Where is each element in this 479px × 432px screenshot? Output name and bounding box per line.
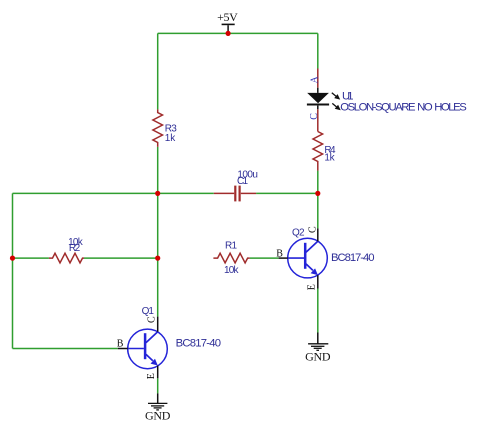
wire R1 right to Q2 base bbox=[250, 257, 279, 259]
wire R2 right to junction bbox=[84, 257, 158, 259]
svg-text:A: A bbox=[309, 76, 320, 84]
resistor R3 bbox=[153, 109, 177, 146]
svg-text:R2: R2 bbox=[69, 243, 81, 254]
ground GND (Q1) bbox=[145, 393, 171, 422]
resistor R1 bbox=[213, 240, 249, 276]
wire mid rail right segment bbox=[256, 192, 318, 194]
svg-text:GND: GND bbox=[305, 349, 331, 363]
svg-text:Q2: Q2 bbox=[292, 228, 305, 239]
svg-text:Q1: Q1 bbox=[142, 306, 155, 317]
svg-text:10k: 10k bbox=[224, 265, 240, 276]
junction dot left rail bbox=[10, 256, 15, 261]
junction dot R-row bbox=[155, 256, 160, 261]
wire mid junction down to Q2 collector bbox=[317, 193, 319, 228]
capacitor C1 bbox=[214, 169, 258, 201]
svg-text:BC817-40: BC817-40 bbox=[331, 252, 375, 264]
svg-text:C: C bbox=[309, 113, 320, 120]
svg-text:C: C bbox=[146, 316, 157, 323]
LED U1 bbox=[307, 69, 467, 132]
wire x=158 below R3 to mid rail bbox=[157, 147, 159, 194]
wire top rail bbox=[158, 32, 318, 34]
svg-text:1k: 1k bbox=[165, 133, 177, 144]
Q1 pins bbox=[157, 317, 159, 332]
svg-text:C1: C1 bbox=[237, 176, 248, 187]
svg-text:R1: R1 bbox=[225, 240, 237, 251]
svg-text:B: B bbox=[117, 339, 124, 350]
resistor R2 bbox=[49, 237, 84, 263]
junction dot mid-left bbox=[155, 191, 160, 196]
svg-text:BC817-40: BC817-40 bbox=[176, 337, 222, 349]
svg-text:C: C bbox=[308, 226, 319, 233]
junction dot +5V bbox=[226, 31, 231, 36]
resistor R4 bbox=[313, 132, 336, 171]
supply +5V symbol bbox=[217, 10, 238, 33]
wire right column x=318 top bbox=[317, 33, 319, 68]
wire bottom row to Q1 base bbox=[13, 348, 118, 350]
svg-text:B: B bbox=[276, 249, 283, 260]
svg-text:OSLON-SQUARE NO HOLES: OSLON-SQUARE NO HOLES bbox=[340, 102, 467, 114]
svg-text:+5V: +5V bbox=[217, 10, 238, 24]
wire x=158 mid rail to R-row bbox=[157, 193, 159, 258]
svg-text:GND: GND bbox=[145, 409, 171, 423]
wire x=158 R-row down to Q1 collector bbox=[157, 258, 159, 317]
wire left column x=158 upper bbox=[157, 33, 159, 109]
transistor Q2 bbox=[276, 226, 374, 290]
transistor Q1 bbox=[117, 306, 221, 379]
wire mid rail left segment bbox=[13, 192, 214, 194]
svg-text:E: E bbox=[307, 284, 318, 290]
LED arrow 1 bbox=[332, 93, 336, 97]
wire below R4 to mid junction bbox=[317, 171, 319, 194]
junction dot mid-right bbox=[315, 191, 320, 196]
wire R2 left bbox=[13, 257, 49, 259]
wire Q2 emitter down bbox=[317, 289, 319, 333]
wire left rail vertical bbox=[12, 193, 14, 348]
wire Q1 emitter down bbox=[157, 378, 159, 393]
LED arrow 2 bbox=[332, 103, 336, 107]
ground GND (Q2) bbox=[305, 333, 331, 364]
svg-text:E: E bbox=[146, 373, 157, 379]
svg-text:1k: 1k bbox=[324, 152, 335, 163]
Q2 pins bbox=[317, 228, 319, 241]
